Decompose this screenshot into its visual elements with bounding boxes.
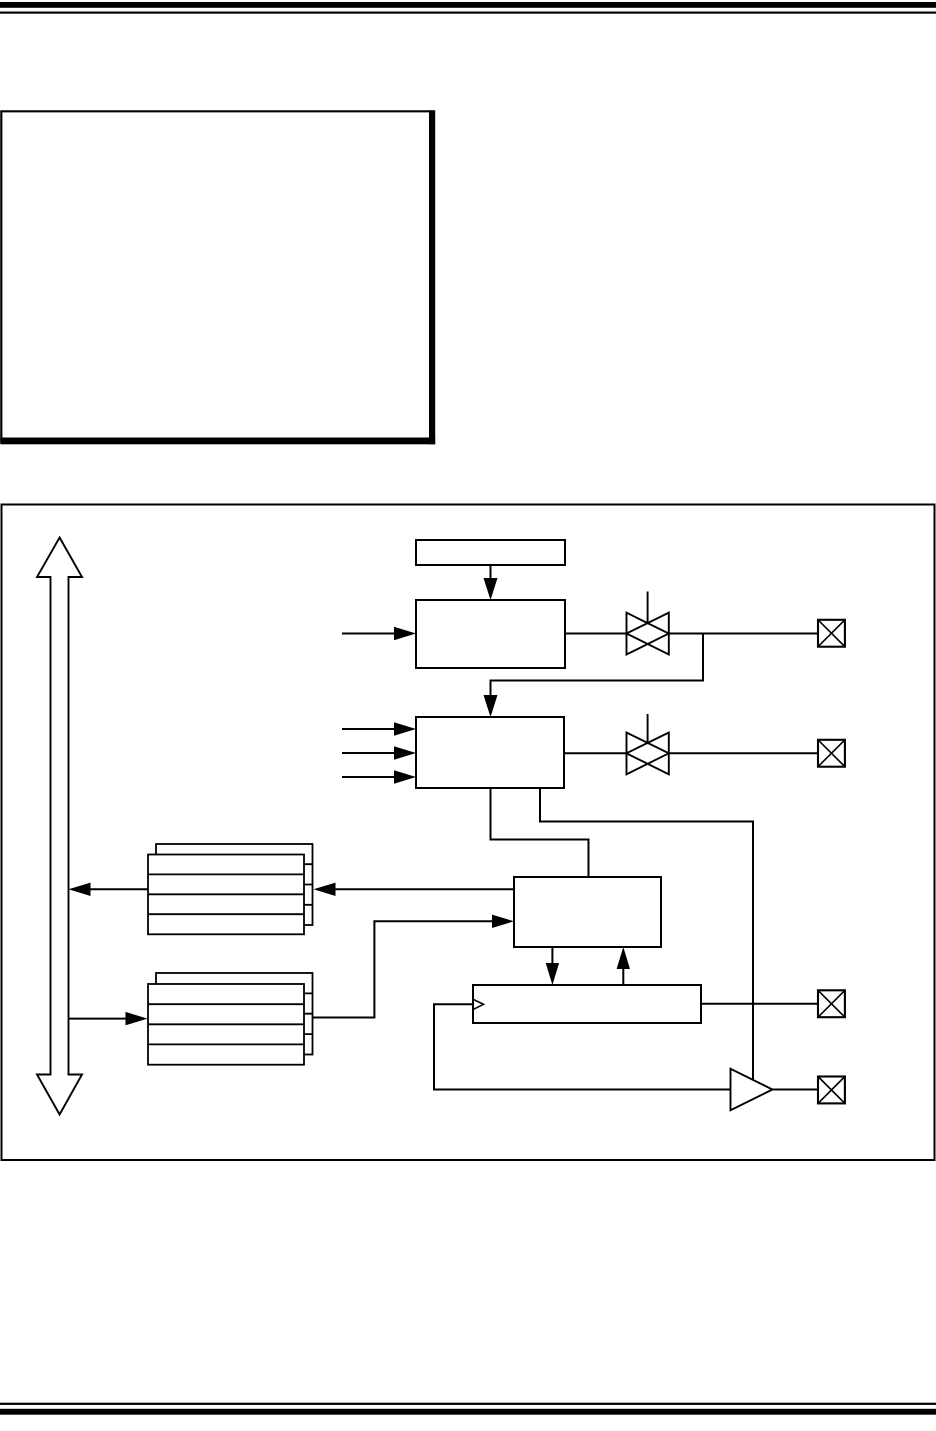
upper register stack back layer — [156, 844, 313, 925]
register box REG — [416, 540, 565, 565]
wire mux to upper stack — [334, 888, 514, 890]
input arrowhead 2 to block2 — [394, 746, 416, 759]
wire shift register up to mux — [622, 968, 624, 985]
lower register stack back layer — [156, 973, 313, 1055]
wire REG to block1 — [490, 565, 492, 580]
bottom rule thin — [0, 1403, 936, 1405]
input arrowhead 1 to block2 — [394, 722, 416, 735]
wire block2 to switch S2 — [564, 752, 627, 754]
bottom rule thick — [0, 1409, 936, 1415]
input wire 1 to block2 — [342, 728, 396, 730]
pin pad P1 — [818, 620, 845, 647]
input wire to block1 — [342, 633, 396, 635]
analog switch S1 — [627, 592, 669, 655]
top rule thin — [0, 12, 936, 14]
arrowhead into block2 top — [484, 695, 498, 717]
wire switch S1 to pin P1 — [669, 633, 818, 635]
arrowhead into shift register top — [546, 963, 559, 985]
clock input chevron — [474, 1000, 484, 1010]
title box thick right shadow bar — [429, 110, 435, 444]
wire branch from pin1 net down to block2 — [491, 634, 704, 697]
wire buffer to pin P4 — [772, 1089, 818, 1091]
block2 — [416, 717, 564, 788]
title box thick bottom shadow bar — [0, 438, 435, 445]
mux block — [514, 877, 661, 947]
arrowhead into mux left — [492, 915, 514, 928]
title box thin top and left borders — [1, 111, 430, 443]
output buffer triangle — [731, 1069, 773, 1110]
shift register block — [473, 985, 701, 1023]
input wire 3 to block2 — [342, 776, 396, 778]
input arrowhead 3 to block2 — [394, 770, 416, 783]
input wire 2 to block2 — [342, 752, 396, 754]
arrowhead into lower stack — [126, 1012, 148, 1025]
block1 — [416, 600, 565, 668]
wire block2 bottom left drop to mux top — [491, 788, 589, 877]
pin pad P2 — [818, 740, 845, 767]
wire switch S2 to pin P2 — [669, 752, 818, 754]
wire block2 bottom right drop to output column — [540, 788, 753, 1081]
wire mux down to shift register — [551, 947, 553, 964]
figure frame — [2, 505, 935, 1161]
wire shift register to pin P3 — [701, 1003, 818, 1005]
wire lower stack to mux — [313, 921, 494, 1017]
arrowhead into upper stack — [314, 883, 336, 896]
top rule thick — [0, 2, 936, 8]
arrowhead REG to block1 — [484, 578, 498, 600]
arrowhead into mux bottom — [617, 947, 630, 969]
wire block1 to switch S1 — [565, 633, 627, 635]
clock feed wire loop to buffer — [434, 1004, 731, 1089]
arrowhead into bus — [69, 883, 91, 896]
input arrowhead to block1 — [394, 627, 416, 640]
upper register stack front layer — [148, 855, 304, 935]
lower register stack front layer — [148, 984, 304, 1065]
data bus double arrow — [37, 538, 82, 1115]
wire bus to lower stack — [69, 1018, 128, 1020]
pin pad P4 — [818, 1077, 845, 1104]
analog switch S2 — [627, 714, 669, 774]
pin pad P3 — [818, 990, 845, 1017]
wire upper stack to bus — [89, 888, 148, 890]
